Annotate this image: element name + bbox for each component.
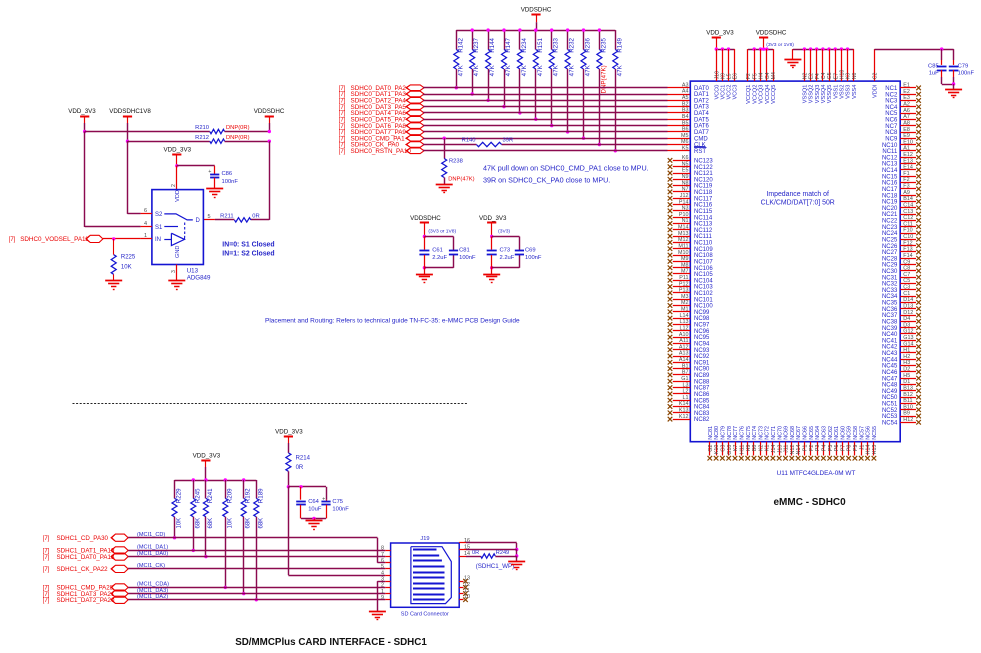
svg-text:G13: G13 bbox=[903, 335, 913, 341]
svg-text:VCC3: VCC3 bbox=[733, 85, 739, 100]
svg-text:[7]: [7] bbox=[339, 149, 346, 155]
U11 pin A7 NC6 bbox=[885, 114, 921, 123]
svg-text:R149: R149 bbox=[616, 37, 623, 52]
wire SDHC0_DAT2_PA4 bbox=[423, 100, 690, 102]
svg-text:H10: H10 bbox=[840, 70, 846, 80]
U11 pin F13 NC27 bbox=[882, 247, 921, 256]
svg-text:B4: B4 bbox=[682, 114, 689, 120]
svg-text:NC123: NC123 bbox=[694, 159, 713, 165]
svg-text:[7]: [7] bbox=[339, 118, 346, 124]
U11 pin C3 NC33 bbox=[882, 285, 921, 294]
resistor R233 47K pull-up bbox=[549, 28, 560, 127]
svg-text:47K: 47K bbox=[457, 64, 464, 76]
U11 pin C8 NC30 bbox=[882, 266, 921, 275]
svg-text:F14: F14 bbox=[903, 253, 912, 259]
svg-text:F10: F10 bbox=[903, 228, 912, 234]
svg-text:DAT4: DAT4 bbox=[694, 111, 710, 117]
ground (R238) bbox=[436, 185, 453, 193]
svg-text:VSSQ1: VSSQ1 bbox=[803, 85, 809, 104]
ground (U13 GND) bbox=[168, 281, 185, 290]
U11 pin H11 NC76 bbox=[739, 426, 745, 460]
signal flag SDHC0_DAT6_PA8 bbox=[339, 123, 424, 130]
svg-text:G2: G2 bbox=[708, 445, 714, 452]
svg-text:NC2: NC2 bbox=[885, 92, 898, 98]
svg-text:NC97: NC97 bbox=[694, 323, 710, 329]
capacitor C61 2.2uF / capacitor C81 100nF group bbox=[410, 215, 476, 274]
svg-text:DNP(47K): DNP(47K) bbox=[600, 65, 607, 93]
svg-text:[7]: [7] bbox=[339, 86, 346, 92]
svg-text:U11 MTFC4GLDEA-0M WT: U11 MTFC4GLDEA-0M WT bbox=[777, 470, 856, 477]
svg-text:6: 6 bbox=[144, 208, 147, 214]
resistor R211 0R bbox=[220, 214, 260, 223]
U11 pin C9 NC29 bbox=[882, 259, 921, 268]
svg-text:N1: N1 bbox=[682, 218, 689, 224]
svg-text:NC17: NC17 bbox=[882, 187, 898, 193]
svg-text:SDHC1_CD_PA30: SDHC1_CD_PA30 bbox=[57, 535, 109, 542]
svg-text:J10: J10 bbox=[714, 71, 720, 79]
U11 pin F14 NC28 bbox=[882, 253, 921, 262]
J19 pin 9 bbox=[381, 595, 391, 601]
svg-text:L13: L13 bbox=[680, 319, 689, 325]
svg-text:NC78: NC78 bbox=[727, 426, 733, 440]
separator dashed line bbox=[73, 403, 468, 405]
svg-text:B9: B9 bbox=[903, 411, 910, 417]
svg-text:F12: F12 bbox=[903, 240, 912, 246]
wire VDDSDHC down to R211 bbox=[251, 141, 270, 220]
junction U13 VDD node bbox=[175, 164, 178, 167]
title eMMC - SDHC0 bbox=[773, 497, 846, 508]
svg-text:NC27: NC27 bbox=[882, 250, 898, 256]
svg-text:C2: C2 bbox=[873, 73, 879, 80]
U11 pin M9 NC107 bbox=[668, 256, 714, 265]
svg-text:0R: 0R bbox=[472, 550, 479, 556]
svg-text:100nF: 100nF bbox=[332, 507, 349, 513]
svg-text:L3: L3 bbox=[683, 382, 689, 388]
svg-text:NC61: NC61 bbox=[834, 426, 840, 440]
svg-text:DNP(0R): DNP(0R) bbox=[226, 125, 250, 131]
svg-text:NC12: NC12 bbox=[882, 155, 898, 161]
svg-text:C73: C73 bbox=[500, 248, 511, 254]
svg-text:NC18: NC18 bbox=[882, 193, 898, 199]
svg-text:NC113: NC113 bbox=[694, 222, 713, 228]
svg-text:NC50: NC50 bbox=[882, 395, 898, 401]
U11 pin G5 VSSQ5 bbox=[827, 49, 833, 103]
svg-text:NC48: NC48 bbox=[882, 383, 898, 389]
note impedance match bbox=[761, 191, 835, 206]
signal flag SDHC0_CMD_PA1 bbox=[339, 135, 424, 142]
svg-text:SDHC0_VODSEL_PA11: SDHC0_VODSEL_PA11 bbox=[20, 236, 89, 243]
svg-text:E6: E6 bbox=[733, 73, 739, 79]
U11 pin H5 NC47 bbox=[882, 373, 921, 382]
svg-text:GND: GND bbox=[175, 246, 181, 258]
svg-text:47K: 47K bbox=[473, 64, 480, 76]
svg-text:D3: D3 bbox=[903, 322, 910, 328]
svg-text:NC67: NC67 bbox=[796, 426, 802, 440]
svg-text:NC36: NC36 bbox=[882, 307, 898, 313]
svg-text:NC77: NC77 bbox=[733, 426, 739, 440]
svg-text:NC100: NC100 bbox=[694, 304, 713, 310]
svg-text:C79: C79 bbox=[958, 63, 969, 69]
svg-text:NC19: NC19 bbox=[882, 200, 898, 206]
svg-text:P9: P9 bbox=[853, 445, 859, 452]
svg-text:NC41: NC41 bbox=[882, 338, 898, 344]
signal flag SDHC1_DAT3_PA21 bbox=[43, 588, 169, 598]
svg-text:39R on SDHC0_CK_PA0 close to M: 39R on SDHC0_CK_PA0 close to MPU. bbox=[483, 175, 610, 184]
U11 pin B14 NC19 bbox=[882, 196, 921, 205]
U11 pin A10 NC95 bbox=[668, 332, 710, 341]
svg-text:NC75: NC75 bbox=[746, 426, 752, 440]
svg-text:NC47: NC47 bbox=[882, 376, 898, 382]
ground (C73/C69) bbox=[483, 275, 500, 283]
svg-text:47K: 47K bbox=[553, 64, 560, 76]
svg-text:8: 8 bbox=[381, 546, 384, 552]
svg-text:A5: A5 bbox=[682, 95, 689, 101]
svg-text:NC103: NC103 bbox=[694, 285, 713, 291]
U11 pin N9 NC120 bbox=[668, 174, 714, 183]
U11 pin P9 NC58 bbox=[853, 426, 859, 460]
U11 pin E2 NC2 bbox=[885, 89, 921, 98]
resistor R237 47K pull-up bbox=[470, 28, 481, 95]
svg-text:NC80: NC80 bbox=[714, 426, 720, 440]
svg-text:DAT2: DAT2 bbox=[694, 98, 710, 104]
svg-text:68K: 68K bbox=[208, 518, 214, 529]
U11 pin M10 NC108 bbox=[668, 250, 714, 259]
U11 pin M11 NC109 bbox=[668, 243, 714, 252]
svg-text:NC121: NC121 bbox=[694, 171, 713, 177]
svg-text:R211: R211 bbox=[220, 214, 233, 220]
svg-text:NC56: NC56 bbox=[866, 426, 872, 440]
svg-text:H9: H9 bbox=[746, 445, 752, 452]
svg-text:D1: D1 bbox=[903, 379, 910, 385]
ground (C61/C81) bbox=[416, 275, 433, 283]
svg-text:P3: P3 bbox=[815, 445, 821, 452]
svg-text:[7]: [7] bbox=[339, 136, 346, 142]
U13 pin 1 IN bbox=[141, 233, 152, 239]
junction node CMD pulldown bbox=[443, 137, 446, 140]
J19 pin 8 bbox=[381, 546, 391, 552]
svg-text:+: + bbox=[322, 496, 325, 502]
svg-text:VCC0: VCC0 bbox=[714, 85, 720, 100]
U11 pin K14 NC84 bbox=[668, 401, 710, 410]
svg-text:A4: A4 bbox=[682, 89, 689, 95]
wire pull-up rail bbox=[456, 30, 615, 32]
svg-text:VCCQ3: VCCQ3 bbox=[759, 85, 765, 104]
U11 pin B2 DAT3 bbox=[682, 101, 710, 110]
svg-text:NC25: NC25 bbox=[882, 237, 898, 243]
svg-text:NC30: NC30 bbox=[882, 269, 898, 275]
svg-text:R229: R229 bbox=[176, 488, 183, 503]
svg-text:VDDSDHC: VDDSDHC bbox=[254, 108, 285, 115]
svg-text:NC62: NC62 bbox=[828, 426, 834, 440]
wire VCCQ rail bbox=[748, 47, 773, 50]
U11 pin N12 NC68 bbox=[790, 426, 796, 460]
U11 pin A14 NC91 bbox=[668, 357, 710, 366]
wire SDHC0_DAT1_PA3 bbox=[423, 94, 690, 96]
svg-text:100nF: 100nF bbox=[459, 255, 476, 261]
svg-text:5: 5 bbox=[381, 564, 384, 570]
svg-text:N14: N14 bbox=[796, 445, 802, 455]
svg-text:NC40: NC40 bbox=[882, 332, 898, 338]
svg-text:L12: L12 bbox=[680, 326, 689, 332]
svg-text:NC53: NC53 bbox=[882, 414, 898, 420]
ground (C86) bbox=[206, 189, 223, 198]
svg-text:E2: E2 bbox=[809, 73, 815, 79]
svg-text:N5: N5 bbox=[682, 161, 689, 167]
svg-text:R232: R232 bbox=[569, 37, 576, 52]
signal flag SDHC0_DAT7_PA9 bbox=[339, 129, 424, 136]
ground (U11 VSS rail) bbox=[784, 49, 801, 67]
U11 pin G10 NC78 bbox=[726, 426, 732, 460]
svg-text:6: 6 bbox=[381, 558, 384, 564]
signal flag SDHC0_VODSEL_PA11 bbox=[9, 235, 103, 243]
power symbol VDDSDHC (switch out) bbox=[254, 108, 285, 132]
svg-text:VDD_3V3: VDD_3V3 bbox=[164, 147, 192, 154]
U11 pin M14 NC112 bbox=[668, 225, 713, 234]
svg-text:R151: R151 bbox=[537, 37, 544, 52]
svg-text:R249: R249 bbox=[496, 550, 509, 556]
svg-text:NC59: NC59 bbox=[847, 426, 853, 440]
svg-text:J14: J14 bbox=[771, 445, 777, 454]
svg-text:NC9: NC9 bbox=[885, 137, 898, 143]
wire SDHC0_RSTN_PA10 bbox=[423, 150, 690, 152]
svg-text:VDD_3V3: VDD_3V3 bbox=[68, 108, 96, 115]
junction R214/C64 node bbox=[287, 485, 290, 488]
svg-text:P14: P14 bbox=[679, 199, 689, 205]
U11 pin M4 VCCQ5 bbox=[771, 49, 777, 104]
svg-text:L5: L5 bbox=[727, 73, 733, 79]
svg-text:[7]: [7] bbox=[339, 111, 346, 117]
svg-text:A7: A7 bbox=[903, 114, 910, 120]
J19 pin 3 bbox=[381, 577, 391, 583]
svg-text:SDHC1_DAT0_PA18: SDHC1_DAT0_PA18 bbox=[57, 554, 115, 561]
svg-text:NC21: NC21 bbox=[882, 212, 898, 218]
svg-text:CMD: CMD bbox=[694, 136, 708, 142]
svg-text:NC83: NC83 bbox=[694, 411, 710, 417]
svg-text:C13: C13 bbox=[903, 209, 913, 215]
svg-text:(3V3 or 1V8): (3V3 or 1V8) bbox=[428, 229, 456, 235]
junction VDDSDHC1V8/wire2 bbox=[126, 140, 129, 143]
svg-text:47K: 47K bbox=[505, 64, 512, 76]
U11 pin P3 NC64 bbox=[815, 426, 821, 460]
capacitor C73 2.2uF / capacitor C69 100nF group bbox=[479, 215, 542, 274]
svg-text:NC3: NC3 bbox=[885, 99, 898, 105]
svg-text:DNP(0R): DNP(0R) bbox=[226, 135, 250, 141]
J19 pin 5 bbox=[381, 564, 391, 570]
svg-text:E10: E10 bbox=[903, 139, 913, 145]
U11 pin B4 DAT5 bbox=[682, 114, 710, 123]
svg-text:100nF: 100nF bbox=[525, 255, 542, 261]
resistor R147 47K pull-up bbox=[502, 28, 513, 108]
svg-text:N9: N9 bbox=[682, 174, 689, 180]
svg-text:C1: C1 bbox=[903, 291, 910, 297]
svg-text:B3: B3 bbox=[682, 108, 689, 114]
resistor R235 47K pull-up bbox=[597, 28, 608, 146]
svg-text:NC110: NC110 bbox=[694, 241, 713, 247]
capacitor C86 100nF bbox=[208, 166, 238, 189]
power symbol VDD_3V3 (SD pull-ups) bbox=[193, 453, 221, 481]
svg-text:VSS2: VSS2 bbox=[840, 85, 846, 99]
wire VDD node to caps bbox=[288, 485, 326, 488]
wire SDHC1_CD_PA30 bbox=[128, 538, 385, 563]
svg-text:Impedance match of: Impedance match of bbox=[766, 191, 829, 198]
svg-text:P5: P5 bbox=[828, 445, 834, 452]
U11 pin M3 NC101 bbox=[668, 294, 714, 303]
svg-text:NC54: NC54 bbox=[882, 420, 898, 426]
svg-text:R209: R209 bbox=[226, 488, 233, 503]
svg-text:VCCQ1: VCCQ1 bbox=[746, 85, 752, 104]
power symbol VDD_3V3 (U13 rails) bbox=[68, 108, 96, 131]
svg-text:10K: 10K bbox=[121, 265, 132, 271]
svg-text:F1: F1 bbox=[903, 171, 909, 177]
signal flag SDHC0_DAT1_PA3 bbox=[339, 91, 424, 98]
U11 pin J11 NC69 bbox=[783, 426, 789, 460]
U11 pin A6 NC5 bbox=[885, 108, 921, 117]
svg-text:M5: M5 bbox=[681, 133, 689, 139]
svg-text:R214: R214 bbox=[296, 456, 311, 462]
U11 pin N2 VSSQ1 bbox=[803, 49, 809, 103]
svg-text:NC70: NC70 bbox=[777, 426, 783, 440]
U11 pin G3 NC79 bbox=[720, 426, 726, 460]
J19 pin 13 bbox=[459, 576, 470, 584]
svg-text:C14: C14 bbox=[903, 203, 913, 209]
svg-text:CLK/CMD/DAT[7:0] 50R: CLK/CMD/DAT[7:0] 50R bbox=[761, 199, 835, 206]
U11 pin F5 VCCQ2 bbox=[752, 49, 758, 104]
svg-text:B2: B2 bbox=[682, 101, 689, 107]
U11 pin P11 NC104 bbox=[668, 275, 714, 284]
signal flag SDHC1_DAT2_PA20 bbox=[43, 594, 169, 604]
svg-text:NC64: NC64 bbox=[815, 426, 821, 440]
resistor R192 68K pull-up bbox=[241, 480, 252, 595]
svg-text:47K: 47K bbox=[489, 64, 496, 76]
power symbol VDDSDHC (decoupling) bbox=[0, 0, 1, 1]
U11 pin B13 NC49 bbox=[882, 386, 921, 395]
svg-text:[7]: [7] bbox=[339, 124, 346, 130]
U11 pin A3 DAT0 bbox=[682, 82, 710, 91]
svg-text:NC102: NC102 bbox=[694, 291, 713, 297]
svg-text:A1: A1 bbox=[903, 146, 910, 152]
wire SDHC0_DAT6_PA8 bbox=[423, 125, 690, 127]
signal flag SDHC0_DAT3_PA5 bbox=[339, 104, 424, 111]
wire SDHC0_DAT0_PA2 bbox=[423, 87, 690, 89]
svg-text:+: + bbox=[208, 169, 211, 175]
J19 pin 16 bbox=[459, 538, 470, 544]
wire SDHC0_DAT3_PA5 bbox=[423, 106, 690, 108]
U11 pin N14 NC67 bbox=[796, 426, 802, 460]
svg-text:K7: K7 bbox=[733, 445, 739, 452]
svg-text:P4: P4 bbox=[822, 445, 828, 452]
svg-text:P12: P12 bbox=[679, 281, 689, 287]
resistor R142 47K pull-up bbox=[454, 30, 465, 89]
svg-text:NC85: NC85 bbox=[694, 398, 710, 404]
U11 pin A5 DAT2 bbox=[682, 95, 710, 104]
svg-text:D14: D14 bbox=[903, 297, 913, 303]
svg-text:R233: R233 bbox=[553, 37, 560, 52]
J19 pin 10 bbox=[459, 594, 470, 602]
capacitor C75 100nF bbox=[321, 487, 349, 519]
svg-text:C61: C61 bbox=[432, 248, 443, 254]
svg-text:ADG849: ADG849 bbox=[187, 275, 211, 282]
svg-text:[7]: [7] bbox=[339, 99, 346, 105]
svg-text:L2: L2 bbox=[683, 389, 689, 395]
J19 pin 15 bbox=[459, 544, 470, 550]
svg-text:G5: G5 bbox=[827, 72, 833, 79]
svg-text:M10: M10 bbox=[678, 250, 689, 256]
svg-text:VSS3: VSS3 bbox=[846, 85, 852, 99]
svg-text:P6: P6 bbox=[834, 445, 840, 452]
svg-text:J19: J19 bbox=[420, 536, 429, 542]
U11 pin H2 NC44 bbox=[882, 354, 921, 363]
U11 pin C2 VDDI bbox=[873, 49, 879, 98]
svg-text:SD/MMCPlus CARD INTERFACE - SD: SD/MMCPlus CARD INTERFACE - SDHC1 bbox=[235, 637, 427, 648]
svg-text:[7]: [7] bbox=[339, 92, 346, 98]
signal flag SDHC0_DAT2_PA4 bbox=[339, 98, 424, 105]
svg-text:2: 2 bbox=[171, 184, 177, 187]
U11 pin K9 VCC1 bbox=[721, 49, 727, 99]
resistor R151 47K pull-up bbox=[533, 28, 544, 121]
U11 pin K3 VSS3 bbox=[846, 49, 852, 99]
U11 pin H12 NC54 bbox=[882, 417, 921, 426]
svg-text:NC114: NC114 bbox=[694, 215, 713, 221]
U11 pin K7 NC77 bbox=[733, 426, 739, 460]
wire VDD_3V3 to R210 bbox=[85, 131, 210, 133]
U11 pin L1 NC85 bbox=[668, 395, 710, 404]
svg-text:[7]: [7] bbox=[339, 130, 346, 136]
U11 pin H10 VSS2 bbox=[840, 49, 846, 99]
svg-text:B11: B11 bbox=[903, 398, 912, 404]
svg-text:N2: N2 bbox=[803, 73, 809, 80]
svg-text:NC84: NC84 bbox=[694, 405, 710, 411]
svg-text:C69: C69 bbox=[525, 248, 536, 254]
U11 pin F3 NC17 bbox=[882, 184, 921, 193]
ground (C64/C75) bbox=[306, 521, 323, 530]
svg-text:NC92: NC92 bbox=[694, 354, 710, 360]
svg-text:VSSQ4: VSSQ4 bbox=[821, 85, 827, 104]
svg-text:G1: G1 bbox=[681, 376, 688, 382]
svg-text:(MCI1_DA1): (MCI1_DA1) bbox=[137, 545, 168, 551]
svg-text:VDD_3V3: VDD_3V3 bbox=[479, 215, 507, 222]
ground (C85/C79) bbox=[945, 90, 962, 98]
svg-text:B1: B1 bbox=[682, 363, 689, 369]
svg-text:NC29: NC29 bbox=[882, 263, 898, 269]
svg-text:S2: S2 bbox=[155, 212, 163, 218]
svg-text:K5: K5 bbox=[682, 146, 689, 152]
eMMC U11 body bbox=[690, 81, 900, 442]
svg-text:NC89: NC89 bbox=[694, 373, 710, 379]
svg-text:A2: A2 bbox=[903, 102, 910, 108]
svg-text:NC20: NC20 bbox=[882, 206, 898, 212]
U11 pin B10 NC52 bbox=[882, 404, 921, 413]
svg-text:10uF: 10uF bbox=[308, 507, 322, 513]
svg-text:NC119: NC119 bbox=[694, 184, 713, 190]
svg-text:M12: M12 bbox=[678, 237, 689, 243]
svg-text:M7: M7 bbox=[681, 269, 689, 275]
U11 pin E13 NC13 bbox=[882, 158, 921, 167]
svg-text:NC79: NC79 bbox=[721, 426, 727, 440]
svg-text:NC118: NC118 bbox=[694, 190, 713, 196]
svg-text:NC35: NC35 bbox=[882, 301, 898, 307]
svg-text:VDD_3V3: VDD_3V3 bbox=[193, 453, 221, 460]
svg-text:VDDSDHC: VDDSDHC bbox=[410, 215, 441, 222]
svg-text:M13: M13 bbox=[678, 231, 689, 237]
U11 pin A13 NC92 bbox=[668, 351, 710, 360]
U11 pin J12 NC117 bbox=[668, 193, 713, 202]
svg-text:SD Card Connector: SD Card Connector bbox=[401, 611, 449, 617]
svg-text:SDHC1_CK_PA22: SDHC1_CK_PA22 bbox=[57, 566, 109, 573]
wire VDDSDHC1V8 down to S2 bbox=[128, 141, 141, 214]
U11 pin A11 NC94 bbox=[668, 338, 710, 347]
svg-text:J11: J11 bbox=[784, 445, 790, 453]
signal flag SDHC0_DAT0_PA2 bbox=[339, 85, 424, 92]
